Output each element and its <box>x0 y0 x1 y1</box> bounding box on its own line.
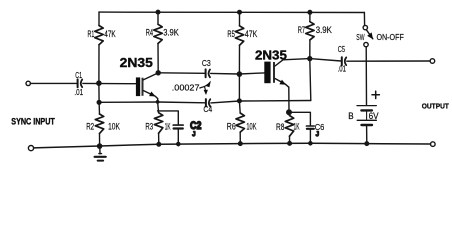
svg-text:47K: 47K <box>104 29 115 39</box>
svg-text:1K: 1K <box>294 121 300 131</box>
wire R5R6 vertical <box>238 74 240 101</box>
svg-text:R4: R4 <box>146 28 153 38</box>
capacitor C5 <box>342 57 346 65</box>
svg-text:J: J <box>192 131 195 138</box>
transistor Q2 2N35 <box>264 60 289 87</box>
node Q1 collector junction <box>156 71 160 75</box>
output terminal (bottom) <box>431 142 436 147</box>
node R8 bottom <box>288 142 292 146</box>
svg-text:C5: C5 <box>338 44 345 54</box>
node top rail R7 <box>308 11 312 15</box>
label + battery <box>372 91 379 98</box>
transistor Q1 2N35 <box>136 73 158 99</box>
svg-text:C3: C3 <box>202 59 211 68</box>
svg-text:R3: R3 <box>145 122 153 132</box>
wire input to C1 <box>30 82 76 84</box>
resistor R3 <box>154 99 162 146</box>
output terminal (top) <box>430 59 435 64</box>
switch SW <box>363 25 373 46</box>
wire C3 to base node Q2 <box>211 73 265 74</box>
node R2 bottom <box>98 144 102 148</box>
input terminal (bottom) <box>28 146 33 151</box>
input terminal (top) <box>26 81 30 85</box>
svg-text:3.9K: 3.9K <box>316 25 332 35</box>
ground symbol <box>95 146 106 161</box>
capacitor C2 <box>173 125 183 146</box>
resistor R2 <box>95 102 103 146</box>
wire switch to battery <box>365 47 367 105</box>
wire emitter Q2 to C6 (staple) <box>289 112 310 125</box>
svg-text:10K: 10K <box>246 122 256 132</box>
svg-text:2N35: 2N35 <box>255 49 287 63</box>
collector lead <box>144 73 159 80</box>
wire emitter Q2 down <box>288 87 290 112</box>
svg-text:R7: R7 <box>298 25 305 35</box>
svg-text:47K: 47K <box>245 29 258 39</box>
svg-text:1K: 1K <box>165 122 171 132</box>
wire collector Q2 to C5 <box>283 59 341 61</box>
svg-text:J: J <box>316 131 319 138</box>
svg-text:3.9K: 3.9K <box>163 28 179 38</box>
node base Q2 junction <box>237 72 241 76</box>
wire collector to C3 <box>158 72 205 75</box>
node emitter Q1 junction <box>156 101 158 103</box>
capacitor C6 <box>306 126 314 145</box>
resistor R5 <box>235 12 243 74</box>
svg-text:C4: C4 <box>203 105 212 114</box>
node R2 top junction <box>97 100 101 104</box>
capacitor C4 <box>206 99 210 106</box>
node C6 bottom <box>309 142 312 145</box>
node R6 bottom <box>239 142 243 146</box>
resistor R7 <box>306 12 314 58</box>
resistor R8 <box>285 112 293 145</box>
svg-text:SW: SW <box>356 32 365 42</box>
resistor R1 <box>95 12 103 83</box>
node collector Q2 junction with R7 <box>308 57 312 61</box>
capacitor C3 <box>206 69 210 77</box>
wire emitter Q1 to C2 (staple) <box>158 111 179 125</box>
svg-text:.00027: .00027 <box>172 83 200 93</box>
node emitter Q2 junction <box>287 110 292 115</box>
wire emitter feed (long horizontal) <box>99 101 205 104</box>
wire C1 to base node <box>83 82 136 84</box>
wire riser up to collector node <box>310 59 311 101</box>
resistor R6 <box>236 101 244 145</box>
svg-text:.01: .01 <box>338 63 347 73</box>
svg-text:R2: R2 <box>86 122 94 132</box>
node top rail R4 <box>156 10 160 14</box>
svg-text:2N35: 2N35 <box>120 55 153 70</box>
svg-text:C2: C2 <box>190 120 201 132</box>
svg-text:OUTPUT: OUTPUT <box>422 102 450 111</box>
wire R1R2 vertical segment <box>98 83 100 102</box>
wire top supply rail <box>99 11 364 13</box>
pointer from .00027 to C3 and C4 <box>200 81 211 95</box>
svg-text:R8: R8 <box>276 122 284 132</box>
svg-text:R6: R6 <box>227 122 236 132</box>
svg-text:R5: R5 <box>227 29 234 39</box>
svg-text:ON-OFF: ON-OFF <box>377 32 404 42</box>
svg-text:SYNC INPUT: SYNC INPUT <box>11 116 55 126</box>
capacitor C1 <box>78 79 83 87</box>
battery B <box>357 106 376 145</box>
resistor R4 <box>154 12 162 73</box>
bottom ground rail <box>34 143 431 148</box>
emitter lead with arrow <box>144 91 158 99</box>
svg-text:B: B <box>348 111 354 121</box>
collector lead <box>275 60 283 66</box>
wire C4 to node and to collector riser <box>211 101 311 103</box>
svg-text:10K: 10K <box>108 122 120 132</box>
wire switch drop from rail <box>363 13 365 26</box>
svg-text:.01: .01 <box>74 87 83 97</box>
svg-text:6V: 6V <box>369 111 379 121</box>
node junction R5R6 with emitter wire <box>238 99 242 103</box>
node C2 bottom <box>177 142 180 145</box>
node top rail R5 <box>238 10 242 14</box>
node R3 bottom <box>157 143 161 147</box>
node battery bottom <box>365 142 369 146</box>
node base Q1 junction with R1 <box>97 81 101 85</box>
emitter lead with arrow <box>275 79 289 88</box>
wire C5 to output terminal <box>347 60 430 62</box>
svg-text:C1: C1 <box>75 70 82 80</box>
svg-text:R1: R1 <box>88 29 95 39</box>
